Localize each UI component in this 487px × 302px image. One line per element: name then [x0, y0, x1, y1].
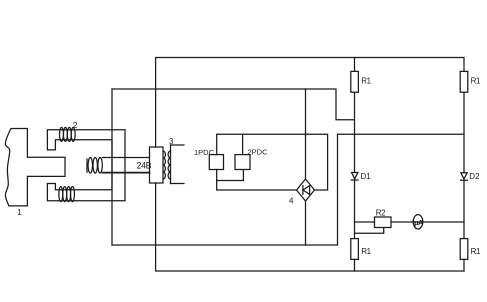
svg-text:R1: R1	[361, 247, 371, 256]
svg-text:μA: μA	[414, 218, 424, 227]
svg-text:D2: D2	[469, 172, 480, 181]
svg-text:3: 3	[169, 137, 174, 146]
svg-text:1PDC: 1PDC	[194, 148, 215, 157]
svg-text:2: 2	[73, 120, 78, 130]
svg-text:2PDC: 2PDC	[248, 148, 269, 157]
svg-text:1: 1	[17, 208, 22, 217]
svg-text:4: 4	[289, 197, 294, 206]
svg-text:R2: R2	[376, 209, 386, 218]
svg-text:R1: R1	[471, 77, 481, 86]
svg-text:R1: R1	[471, 247, 481, 256]
svg-text:24B: 24B	[137, 161, 152, 171]
svg-text:R1: R1	[361, 77, 371, 86]
svg-text:D1: D1	[361, 172, 372, 181]
